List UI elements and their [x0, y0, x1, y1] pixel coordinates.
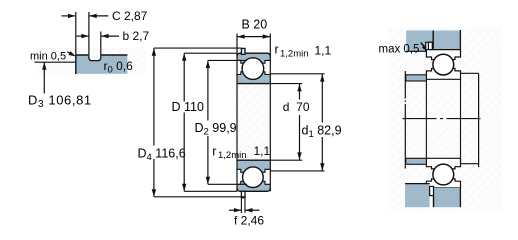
snap ring (bottom)	[430, 186, 434, 195]
svg-text:min 0,5: min 0,5	[30, 51, 66, 63]
housing face line (bottom)	[433, 196, 435, 208]
svg-text:r: r	[275, 43, 279, 57]
bearing left face line (bore region)	[425, 81, 427, 158]
groove right wall / extension line	[100, 32, 102, 58]
D2 dimension line	[207, 60, 209, 184]
d top connector	[270, 83, 302, 85]
svg-text:b 2,7: b 2,7	[123, 29, 150, 43]
housing bottom-right block	[434, 188, 461, 207]
d1 top connector	[270, 73, 324, 75]
svg-text:D3 106,81: D3 106,81	[28, 92, 92, 110]
top inner ring	[237, 75, 270, 84]
d bottom connector	[270, 159, 302, 161]
svg-text:r: r	[212, 144, 216, 158]
svg-text:d 70: d 70	[283, 100, 310, 114]
bottom bearing outer ring (right view)	[426, 179, 460, 188]
f extension lines	[241, 198, 245, 213]
D3 arrow	[43, 62, 45, 93]
housing bottom-left block	[405, 184, 430, 208]
svg-text:D 110: D 110	[172, 100, 204, 114]
top inner ring bore surface	[237, 83, 270, 85]
D4 bottom connector	[154, 196, 245, 198]
snap ring (top, in housing recess)	[428, 42, 432, 50]
hatched band behind right figure	[388, 27, 501, 211]
D dimension line	[183, 53, 185, 191]
shaft shoulder strip (bottom)	[406, 158, 427, 164]
outer ring segment (blue block)	[76, 55, 128, 74]
housing top-right block	[434, 31, 461, 50]
abutment top line (right)	[461, 72, 479, 74]
bottom outer ring	[237, 184, 270, 191]
block top surface line	[76, 54, 128, 56]
dimension B 20	[237, 36, 270, 38]
f left arrow	[229, 209, 241, 211]
snap ring groove slot	[89, 54, 101, 61]
D2 bottom connector	[208, 183, 247, 185]
hatched band behind detail figure	[36, 48, 146, 76]
bottom inner ring bore surface	[237, 159, 270, 161]
D4 dimension line	[153, 48, 155, 197]
D bottom connector	[184, 190, 237, 192]
D4 top connector	[154, 47, 242, 49]
ball (bottom)	[243, 167, 264, 188]
ball bottom (right view)	[433, 164, 454, 185]
svg-text:1,1: 1,1	[254, 144, 271, 158]
axis centerline (dash-dot)	[403, 118, 483, 120]
housing right edge (bottom)	[459, 188, 461, 207]
svg-text:1,1: 1,1	[315, 44, 332, 58]
ball (top)	[242, 58, 264, 80]
dimension C: left arrow	[62, 15, 76, 17]
abutment bottom line (right)	[461, 163, 479, 165]
top outer ring	[237, 53, 270, 60]
leader arrow for min 0,5	[67, 52, 71, 54]
bearing right face line (bore region)	[460, 79, 462, 164]
leader arrow for max 0,5	[421, 43, 425, 47]
f right arrow	[245, 209, 259, 211]
dimension b: right arrow	[101, 35, 119, 37]
shaft shoulder strip (top)	[406, 75, 427, 81]
D2 top connector	[208, 59, 247, 61]
left face extension line	[75, 12, 77, 54]
hatched bore area	[237, 53, 270, 191]
svg-text:f 2,46: f 2,46	[234, 214, 264, 228]
bottom bearing inner ring (right view)	[426, 158, 460, 169]
block left face line	[75, 54, 77, 74]
dimension C: right arrow	[89, 15, 108, 17]
dimension b: left arrow	[77, 35, 89, 37]
abutment edge line (right vertical)	[478, 73, 480, 167]
d1 bottom connector	[270, 170, 324, 172]
svg-text:C 2,87: C 2,87	[112, 9, 148, 23]
top outer ring OD surface	[237, 53, 270, 56]
svg-text:B 20: B 20	[242, 17, 268, 31]
bottom inner ring	[237, 160, 270, 169]
D3 reference line (groove bottom diameter)	[35, 61, 76, 63]
svg-text:1,2min: 1,2min	[218, 150, 247, 161]
housing top-left block	[406, 31, 433, 52]
snap ring cross-section (top)	[241, 48, 245, 54]
bearing right face line	[269, 34, 271, 192]
shaft step line (left vertical)	[404, 71, 406, 169]
housing right edge (top)	[459, 30, 461, 50]
groove left wall / extension line	[88, 12, 90, 58]
housing face line (top)	[432, 31, 434, 49]
d dimension line	[299, 84, 301, 160]
svg-text:1,2min: 1,2min	[280, 48, 309, 59]
svg-text:max 0,5: max 0,5	[379, 44, 420, 56]
bottom outer ring OD surface	[237, 188, 270, 191]
bearing left face line	[236, 34, 238, 192]
D top connector	[184, 52, 237, 54]
top bearing outer ring (right view)	[426, 50, 460, 60]
ball top (right view)	[433, 54, 454, 75]
d1 dimension line	[321, 74, 323, 171]
top bearing inner ring (right view)	[426, 69, 460, 80]
snap ring cross-section (bottom)	[241, 191, 245, 197]
